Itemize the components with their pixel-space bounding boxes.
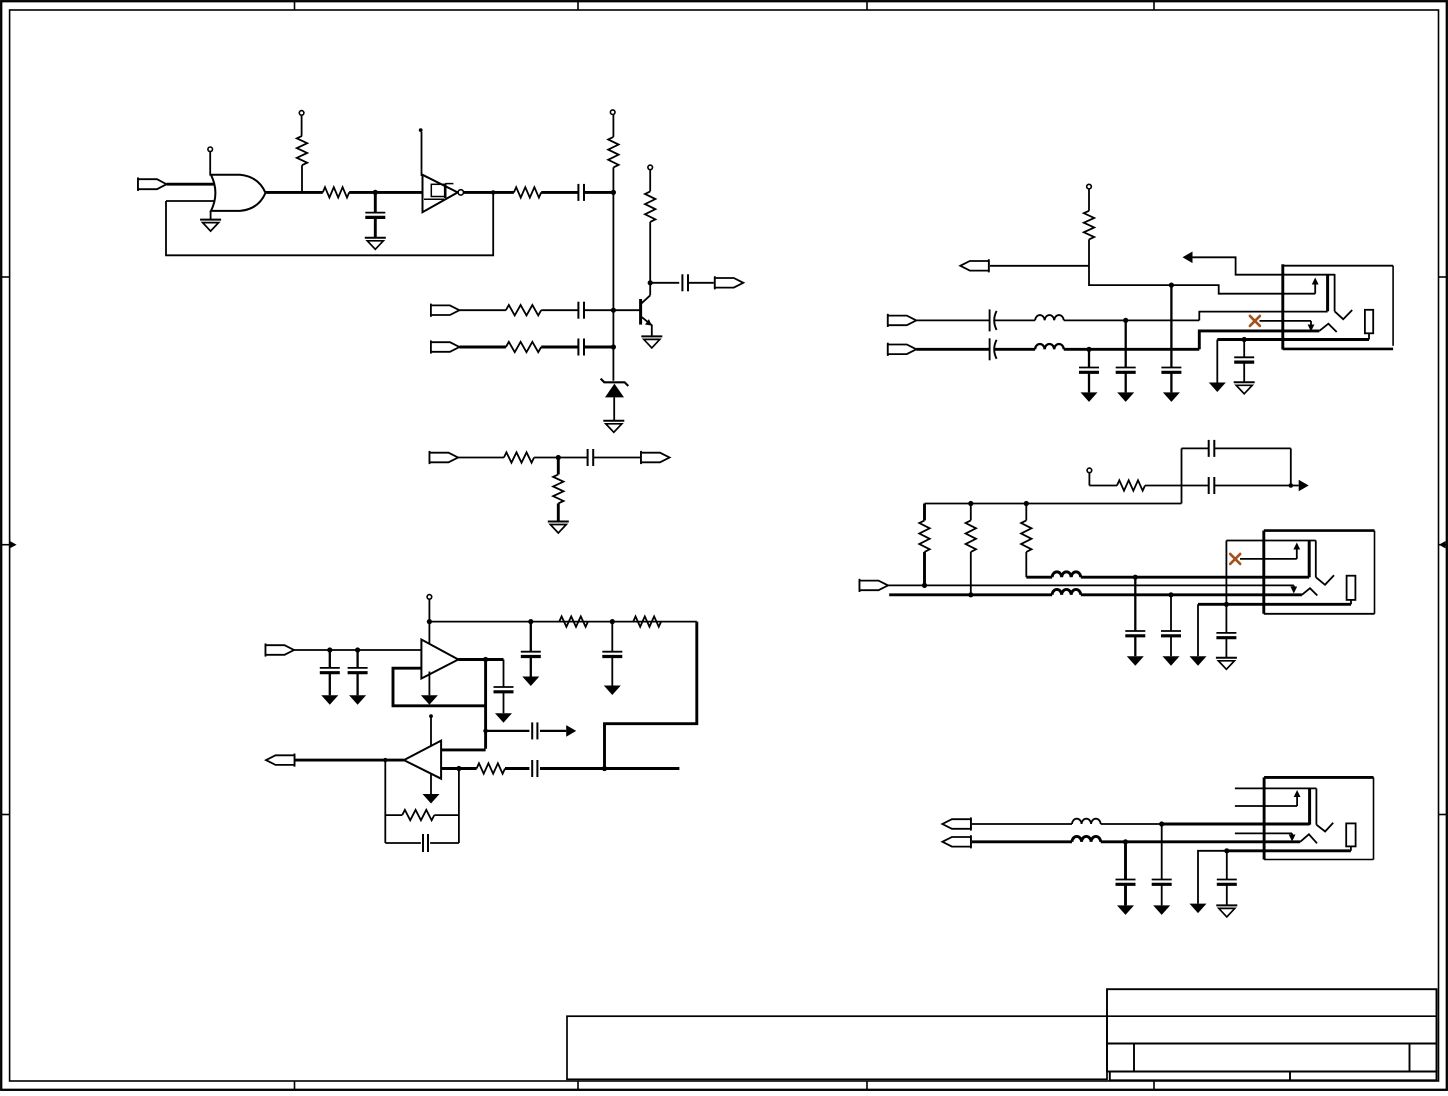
jack2 rod top wire [1226,540,1315,542]
wire row2 [459,346,506,349]
resistor R15 [1117,480,1145,490]
wire input1 to jack [1064,319,1200,321]
jack2 switch2 [1302,588,1317,595]
wire [541,309,578,311]
capacitor C13 series [531,760,533,777]
wire sleeve jack1 [1217,338,1369,341]
wire1 jack2 [888,584,1294,586]
wire [995,348,1036,351]
ground open jack2 [1216,657,1237,659]
jack2 sleeve [1347,576,1356,600]
wire OR output [266,191,323,194]
wire OR gate lower input [166,200,217,202]
wire1 jack3 [972,823,1072,825]
wire2 jack3 [972,840,1072,843]
inductor L2 [1035,344,1064,349]
wire [584,191,613,194]
wire opamp1 output [458,658,503,661]
op-amp U4 [404,741,441,779]
wire arrow to rod top [1193,257,1335,274]
wire opamp1 feedback [393,668,486,706]
ground sleeve jack3 [1198,851,1227,904]
jack2 up-arrow contact [1240,558,1297,560]
jack2 tip rod [1308,541,1311,578]
capacitor C2 series [577,184,579,201]
wire cap branch vertical [1181,448,1183,503]
jack3 switch1 [1316,823,1333,832]
inductor L1 [1035,315,1064,320]
wire [541,346,578,349]
jack1 tip rod [1326,275,1329,312]
capacitor C14 feedback [385,842,421,844]
capacitor C27 bypass [1161,824,1163,880]
no-connect X1 [1250,316,1260,326]
jack3 rod top stub [1235,787,1317,789]
connector J10 input1 [887,314,889,327]
inductor L3 [1052,589,1081,594]
wire feedback loop [166,192,493,255]
revision box [567,1016,1107,1079]
connector J5 input mid [429,451,431,464]
wire [505,767,529,770]
resistor R11 [633,616,661,626]
no-connect X2 [1230,554,1240,564]
wire input2 to jack [1064,348,1200,351]
ground sleeve jack2 [1197,604,1199,656]
wire to base [584,309,641,311]
connector J6 output mid [640,451,642,464]
node junctions [611,190,616,195]
pin P3 jack2 [1087,468,1092,473]
jack2 switch1 [1316,575,1334,585]
pin P1 OR gate top input [208,147,213,152]
op-amp U3 [421,640,458,679]
wire sleeve jack2 [1198,603,1351,606]
opamp2 supply dot [429,714,433,718]
zener diode D1 [601,379,629,386]
jack1 connector body [1281,264,1284,349]
wire node vertical [612,167,614,380]
jack1 sleeve [1365,310,1373,334]
capacitor C12 series to arrow [486,730,530,732]
connector J4 output [714,276,716,289]
wire pin to gate [209,152,211,176]
junction node [373,190,378,195]
resistor R16 [923,504,926,521]
wire [1145,485,1182,487]
resistor R8 [504,452,534,462]
capacitor C18 bypass [1125,320,1127,367]
capacitor C3 series [577,302,579,319]
jack3 switch2 [1300,834,1317,843]
ground open sleeve cap [1234,381,1255,383]
wire input1 [916,319,989,321]
connector J1 input [137,177,139,191]
wire opamp2 +input [441,748,486,751]
capacitor C25 sleeve [1224,602,1229,607]
capacitor C19 bypass [1170,285,1172,367]
wire rail down right [605,622,697,769]
feedback network opamp2 [383,758,387,762]
resistor R1 pull-up [299,111,304,116]
capacitor C15 polarized [989,309,991,331]
resistor R17 [970,504,972,521]
capacitor C4 series [577,339,579,356]
connector J7 opamp input [265,643,267,656]
transistor Q1 [639,299,642,325]
ground OR gate input [210,211,212,220]
connector J8 output left [294,754,296,767]
wire2 jack2 [889,593,1052,596]
wire row1 [459,309,506,311]
inductor L6 [1072,836,1101,841]
ground opamp2 [430,774,432,794]
resistor R10 [559,616,588,626]
wire3 tip jack2 [1026,576,1052,579]
wire [458,457,504,459]
resistor R18 [1025,504,1027,521]
offpage arrow left jack1 [1183,252,1193,264]
jack1 up-arrow contact [1314,284,1316,294]
capacitor C11 bypass [503,660,505,688]
wire supply rail [429,621,696,623]
ground sleeve jack1 [1216,340,1218,383]
ground open jack3 [1216,904,1237,906]
inductor L4 [1052,572,1081,577]
resistor R14 pull jack1 [1087,184,1092,189]
jack1 tip switch contact [1260,320,1312,322]
title block [1107,989,1437,1071]
buffer U2 open-drain [421,132,423,176]
capacitor C6 series [587,449,589,466]
resistor R6 [506,342,541,352]
inductor L5 [1072,819,1101,824]
offpage arrow right [566,725,576,737]
connector J12 input [859,579,861,592]
connector J13 output left [970,817,972,830]
resistor R7 collector pull-up [648,165,653,170]
resistor R12 [477,763,505,773]
wire input [294,649,421,651]
wire opamp2 output [294,759,404,762]
jack3 tip switch contact [1235,832,1292,834]
resistor R2 [323,187,349,197]
resistor R5 [506,305,541,315]
capacitor C28 sleeve [1224,848,1229,853]
ground zener [603,420,624,422]
capacitor C22 series bottom [1182,485,1209,487]
wire [541,191,578,194]
ground R9 [548,521,569,523]
wire sleeve jack3 [1227,849,1351,852]
ground emitter [641,335,662,337]
frame center marker left [10,541,17,548]
connector J3 input row2 [430,340,432,353]
jack1 switch1 [1335,310,1353,319]
resistor R9 to ground [557,458,560,475]
wire [584,346,613,349]
wire [1089,485,1117,487]
capacitor C16 polarized [989,338,991,360]
jack2 tip switch contact [1293,585,1295,588]
capacitor C21 series top [1182,447,1209,449]
frame center marker right [1439,541,1446,548]
connector J2 input row1 [430,304,432,317]
connector J9 output left [988,259,990,272]
wire supply vertical [428,599,430,644]
jack3 connector body [1263,777,1266,859]
jack1 switch2 [1319,324,1336,332]
capacitor C10 bypass [356,650,358,668]
capacitor C7 bypass [530,622,532,652]
wire [534,457,587,459]
wire [995,319,1036,321]
capacitor C23 bypass [1133,575,1138,580]
wire to node [990,265,1089,267]
capacitor C26 bypass [1124,842,1127,880]
wire [593,457,640,459]
pin P2 opamp supply [427,595,432,600]
capacitor C8 bypass [611,622,613,652]
wire minus chain right [540,767,679,770]
wire to buffer [349,191,422,194]
capacitor C17 bypass [1088,349,1090,367]
jack2 connector body [1262,531,1265,614]
jack3 tip rod [1308,788,1311,824]
connector J11 input2 [887,343,889,356]
ground opamp1 [428,672,430,696]
wire input2 [916,348,989,351]
offpage arrow right jack2 [1299,480,1309,492]
capacitor C5 series output [650,282,679,284]
resistor R3 [514,187,541,197]
wire minus chain [441,767,477,770]
wire input to OR gate [167,183,217,186]
capacitor C24 bypass [1168,592,1173,597]
wire output net vertical [484,660,487,749]
jack3 up-arrow contact [1235,805,1297,807]
jack3 sleeve [1346,823,1355,846]
title strip [1110,1072,1437,1081]
or-gate U1 [211,175,266,211]
resistor R13 feedback [385,814,402,816]
capacitor C20 sleeve [1243,340,1245,358]
wire buffer output [464,191,514,194]
wire bias bus [925,503,1182,505]
capacitor C9 bypass [329,650,331,668]
wire node down and right [1089,266,1315,294]
capacitor C1 to ground [374,192,377,212]
connector J14 output left [970,835,972,848]
resistor R4 node pull-up [610,110,615,115]
